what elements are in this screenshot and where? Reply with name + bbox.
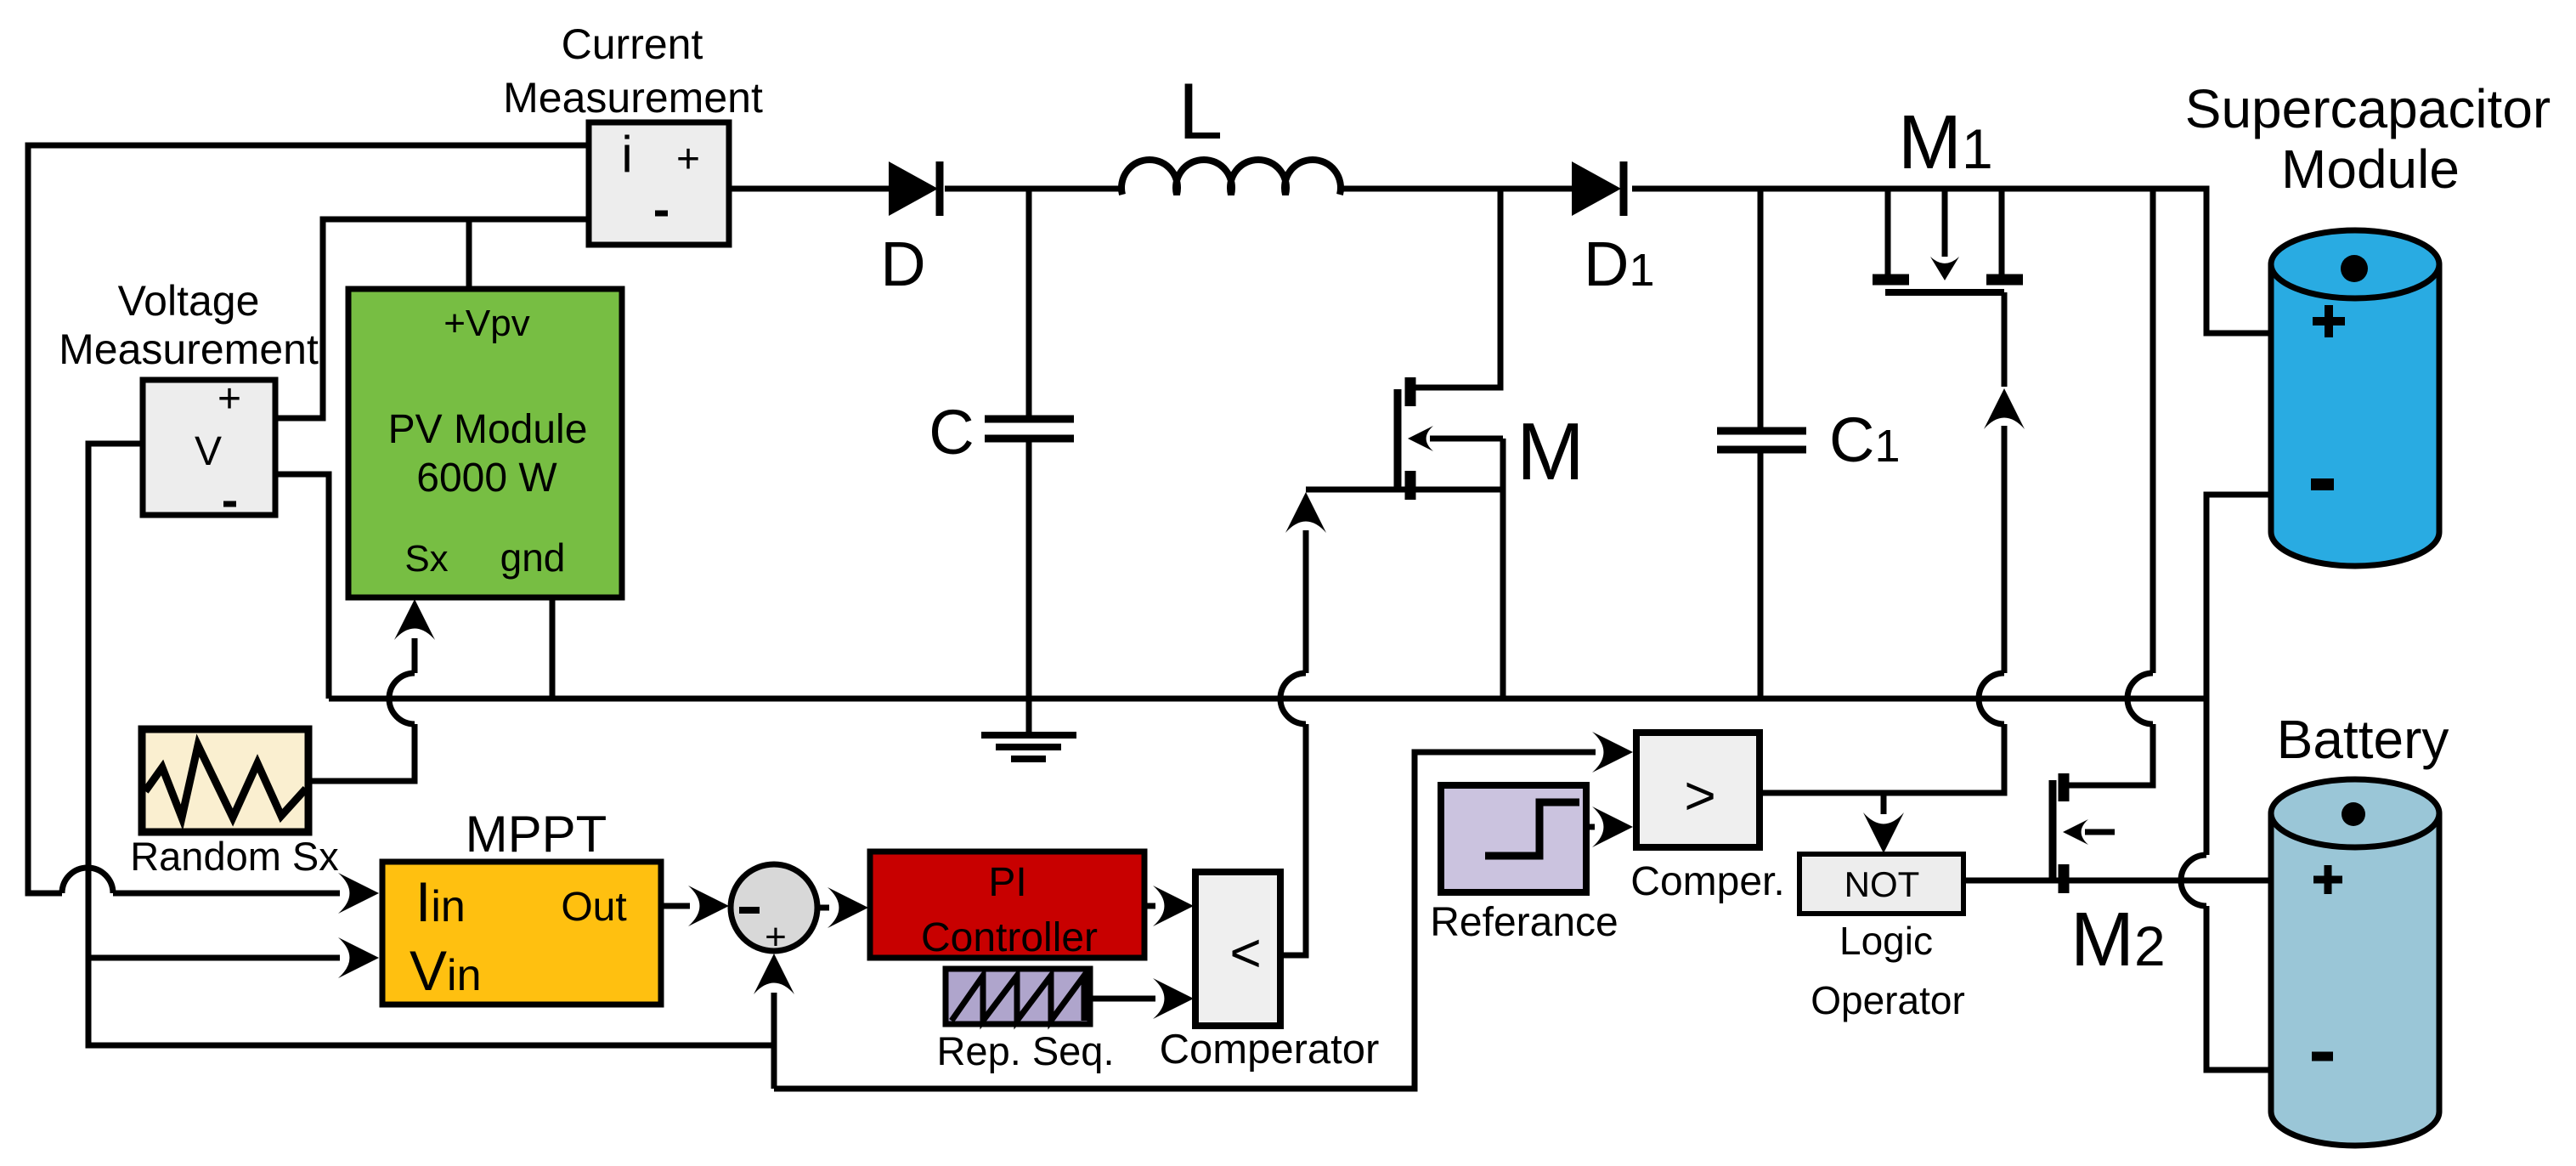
block: MPPT xyxy=(382,862,661,1005)
svg-text:<: < xyxy=(1229,922,1261,983)
node: arrow into comparator second input xyxy=(1153,978,1194,1019)
svg-text:Sx: Sx xyxy=(404,538,448,580)
label minus on battery xyxy=(2312,1052,2333,1061)
svg-text:Operator: Operator xyxy=(1811,978,1965,1022)
battery top dot xyxy=(2342,802,2365,826)
ground xyxy=(981,732,1076,739)
svg-text:gnd: gnd xyxy=(500,535,566,580)
wire: top-left feed from current measurement down to MPPT Iin xyxy=(28,145,589,893)
svg-text:Comperator: Comperator xyxy=(1160,1027,1380,1073)
svg-text:Random Sx: Random Sx xyxy=(130,834,339,879)
wire: NOT output through M2 source to battery plus xyxy=(1963,878,2272,884)
svg-text:Module: Module xyxy=(2281,139,2460,200)
svg-text:+: + xyxy=(217,376,241,422)
label minus in sum xyxy=(739,907,760,914)
supercapacitor cylinder xyxy=(2271,264,2439,566)
block: PI Controller xyxy=(870,852,1144,958)
node: arrow into comparator first input xyxy=(1153,886,1194,926)
block: Current Measurement xyxy=(589,122,729,245)
wire: M2 gate lead xyxy=(2085,829,2115,835)
svg-text:Controller: Controller xyxy=(921,915,1098,960)
node: arrow into Comper second input xyxy=(1592,807,1633,847)
wire: feedback to Comper top input xyxy=(774,752,1596,1089)
node: arrow into M drive xyxy=(1285,492,1326,533)
svg-text:M: M xyxy=(1517,406,1585,497)
wire: M gate-source vertical to bus xyxy=(1500,439,1506,699)
wire: M2 drain lead xyxy=(2064,783,2090,789)
wire: sum out to PI xyxy=(818,905,829,911)
wire hop: M2 feed over bus xyxy=(2127,673,2153,724)
node: arrow into Comper top input xyxy=(1592,732,1633,773)
svg-text:Out: Out xyxy=(561,885,626,930)
svg-text:Rep. Seq.: Rep. Seq. xyxy=(936,1028,1114,1073)
svg-text:+: + xyxy=(765,916,787,958)
transistor M body xyxy=(1394,389,1402,491)
wire: M drain from rail xyxy=(1413,189,1500,388)
transistor M2 gate arrow xyxy=(2063,819,2088,845)
svg-text:Comper.: Comper. xyxy=(1630,859,1784,904)
supercapacitor top dot xyxy=(2341,255,2368,282)
svg-text:C: C xyxy=(929,397,974,467)
wire: Rep Seq out to comparator xyxy=(1090,996,1155,1002)
block: PV Module xyxy=(348,289,622,597)
svg-text:D: D xyxy=(880,229,925,299)
block: Voltage Measurement xyxy=(143,380,275,515)
svg-text:+: + xyxy=(676,137,700,182)
wire: Referance out to Comper xyxy=(1586,824,1595,830)
wire: M1 source stub xyxy=(1999,189,2005,275)
svg-text:6000 W: 6000 W xyxy=(416,456,557,501)
wire: Random Sx output up to PV Sx port xyxy=(308,724,415,781)
svg-text:Measurement: Measurement xyxy=(59,325,319,373)
wire hop: supercap-minus line over battery-plus line xyxy=(2181,855,2206,906)
block: Comper greater-than xyxy=(1636,733,1760,847)
block: Comperator less-than xyxy=(1195,872,1280,1026)
wire: feedback from V line up into sum plus xyxy=(771,993,777,1089)
block: Referance xyxy=(1441,785,1586,892)
svg-text:Supercapacitor: Supercapacitor xyxy=(2185,78,2551,139)
svg-text:V: V xyxy=(195,429,222,474)
wire hop: Iin line over voltage line xyxy=(62,868,113,893)
svg-text:MPPT: MPPT xyxy=(466,806,607,863)
svg-text:L: L xyxy=(1178,66,1223,156)
wire: PI out to comparator xyxy=(1144,903,1155,909)
wire: ground bus xyxy=(329,696,2206,702)
wire: V measurement minus to ground bus xyxy=(277,474,329,699)
wire: PV gnd port to bus xyxy=(550,596,556,699)
wire: main top rail xyxy=(729,186,889,192)
block: NOT Logic Operator xyxy=(1799,854,1963,914)
inductor L xyxy=(1121,160,1341,195)
wire: C bottom to ground symbol xyxy=(1026,442,1032,735)
diode D xyxy=(889,161,938,216)
node: arrow into M1 drive xyxy=(1984,388,2025,429)
battery cylinder xyxy=(2271,813,2439,1146)
block: Rep Seq xyxy=(946,969,1090,1024)
svg-text:>: > xyxy=(1684,765,1715,826)
node: arrow into PV Sx xyxy=(394,599,435,640)
wire: M source lead xyxy=(1306,487,1503,493)
wire: MPPT out to sum xyxy=(661,903,690,909)
svg-text:Battery: Battery xyxy=(2277,709,2449,770)
transistor M gate arrow xyxy=(1408,426,1433,451)
svg-text:PV Module: PV Module xyxy=(388,407,588,452)
wire: M1 gate stub xyxy=(1942,189,1948,257)
icon: step xyxy=(1485,802,1579,856)
node: arrow into PI xyxy=(828,887,868,928)
node: arrow into MPPT Vin xyxy=(338,937,379,978)
label minus in voltage measurement xyxy=(223,501,236,507)
node: arrow into MPPT Iin xyxy=(338,873,379,914)
svg-text:Current: Current xyxy=(562,20,703,68)
wire: rail feed down to M2 drain xyxy=(2150,189,2156,673)
wire: V measurement left port down to Vin and sum feedback xyxy=(88,444,774,1045)
wire hop: M1 drive over bus xyxy=(1979,673,2004,724)
transistor M1 bars xyxy=(1873,275,1909,286)
block: Random Sx xyxy=(142,729,308,832)
node: arrow into sum xyxy=(688,886,729,926)
label minus on supercapacitor xyxy=(2311,478,2334,490)
wire: C1 bottom to bus xyxy=(1758,452,1764,699)
icon: random signal zigzag xyxy=(145,745,306,818)
wire: comparator output up to M drive xyxy=(1282,724,1306,955)
capacitor C xyxy=(985,416,1074,423)
icon: sawtooth xyxy=(952,976,1084,1021)
label plus on supercapacitor xyxy=(2313,317,2345,325)
wire: V+ node to current measurement minus and PV +Vpv xyxy=(277,219,589,418)
wire: M gate lead xyxy=(1430,436,1503,442)
svg-text:Measurement: Measurement xyxy=(503,74,763,122)
wire: C branch from rail xyxy=(1026,189,1032,416)
svg-text:Voltage: Voltage xyxy=(118,277,260,325)
transistor M2 body xyxy=(2049,780,2057,880)
diode D1 xyxy=(1572,161,1621,216)
wire: M1 channel tail xyxy=(2002,292,2008,387)
wire: M1 channel xyxy=(1885,289,2004,296)
wire: supercap minus down to bus and battery minus xyxy=(2206,495,2272,855)
block: sum junction xyxy=(731,864,817,951)
node: M1 gate arrow xyxy=(1930,257,1959,280)
capacitor C1 xyxy=(1717,427,1806,435)
node: arrow into sum plus xyxy=(754,954,794,994)
wire: C1 branch from rail xyxy=(1758,189,1764,429)
node: arrow into NOT xyxy=(1863,812,1904,853)
label minus in current measurement xyxy=(655,211,668,217)
svg-text:NOT: NOT xyxy=(1844,864,1920,904)
svg-text:Logic: Logic xyxy=(1839,919,1933,963)
wire hop: M drive over bus xyxy=(1280,673,1306,724)
label plus on battery xyxy=(2313,876,2342,884)
svg-text:PI: PI xyxy=(988,860,1026,905)
wire hop: Sx line over bus xyxy=(389,673,415,724)
svg-text:+Vpv: +Vpv xyxy=(443,303,530,344)
svg-text:i: i xyxy=(621,126,632,183)
wire: comper output to NOT and M1 drive xyxy=(1760,724,2004,793)
wire: M1 drain stub xyxy=(1885,189,1891,275)
svg-text:Referance: Referance xyxy=(1430,900,1618,945)
